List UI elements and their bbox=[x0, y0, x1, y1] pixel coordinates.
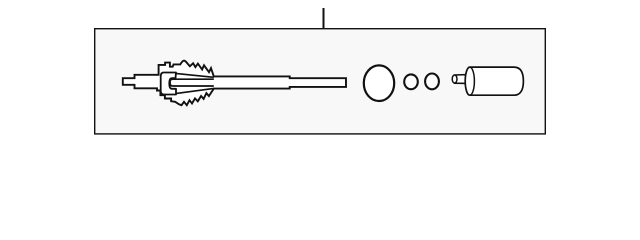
tube rim line bbox=[470, 67, 475, 95]
grease tube nozzle bbox=[455, 75, 468, 84]
boot cone line top bbox=[176, 73, 214, 77]
shaft assembly outline bbox=[123, 61, 346, 106]
o-ring large bbox=[364, 65, 394, 101]
grease tube body bbox=[465, 67, 523, 95]
callout leader line bbox=[323, 8, 325, 28]
diagram box bbox=[95, 29, 546, 134]
boot cone line bottom bbox=[176, 88, 214, 93]
nozzle cap bbox=[452, 75, 457, 83]
bearing collar C bbox=[161, 73, 176, 95]
o-ring small 2 bbox=[425, 74, 439, 90]
inner rod bbox=[170, 79, 214, 86]
o-ring small 1 bbox=[404, 74, 418, 89]
